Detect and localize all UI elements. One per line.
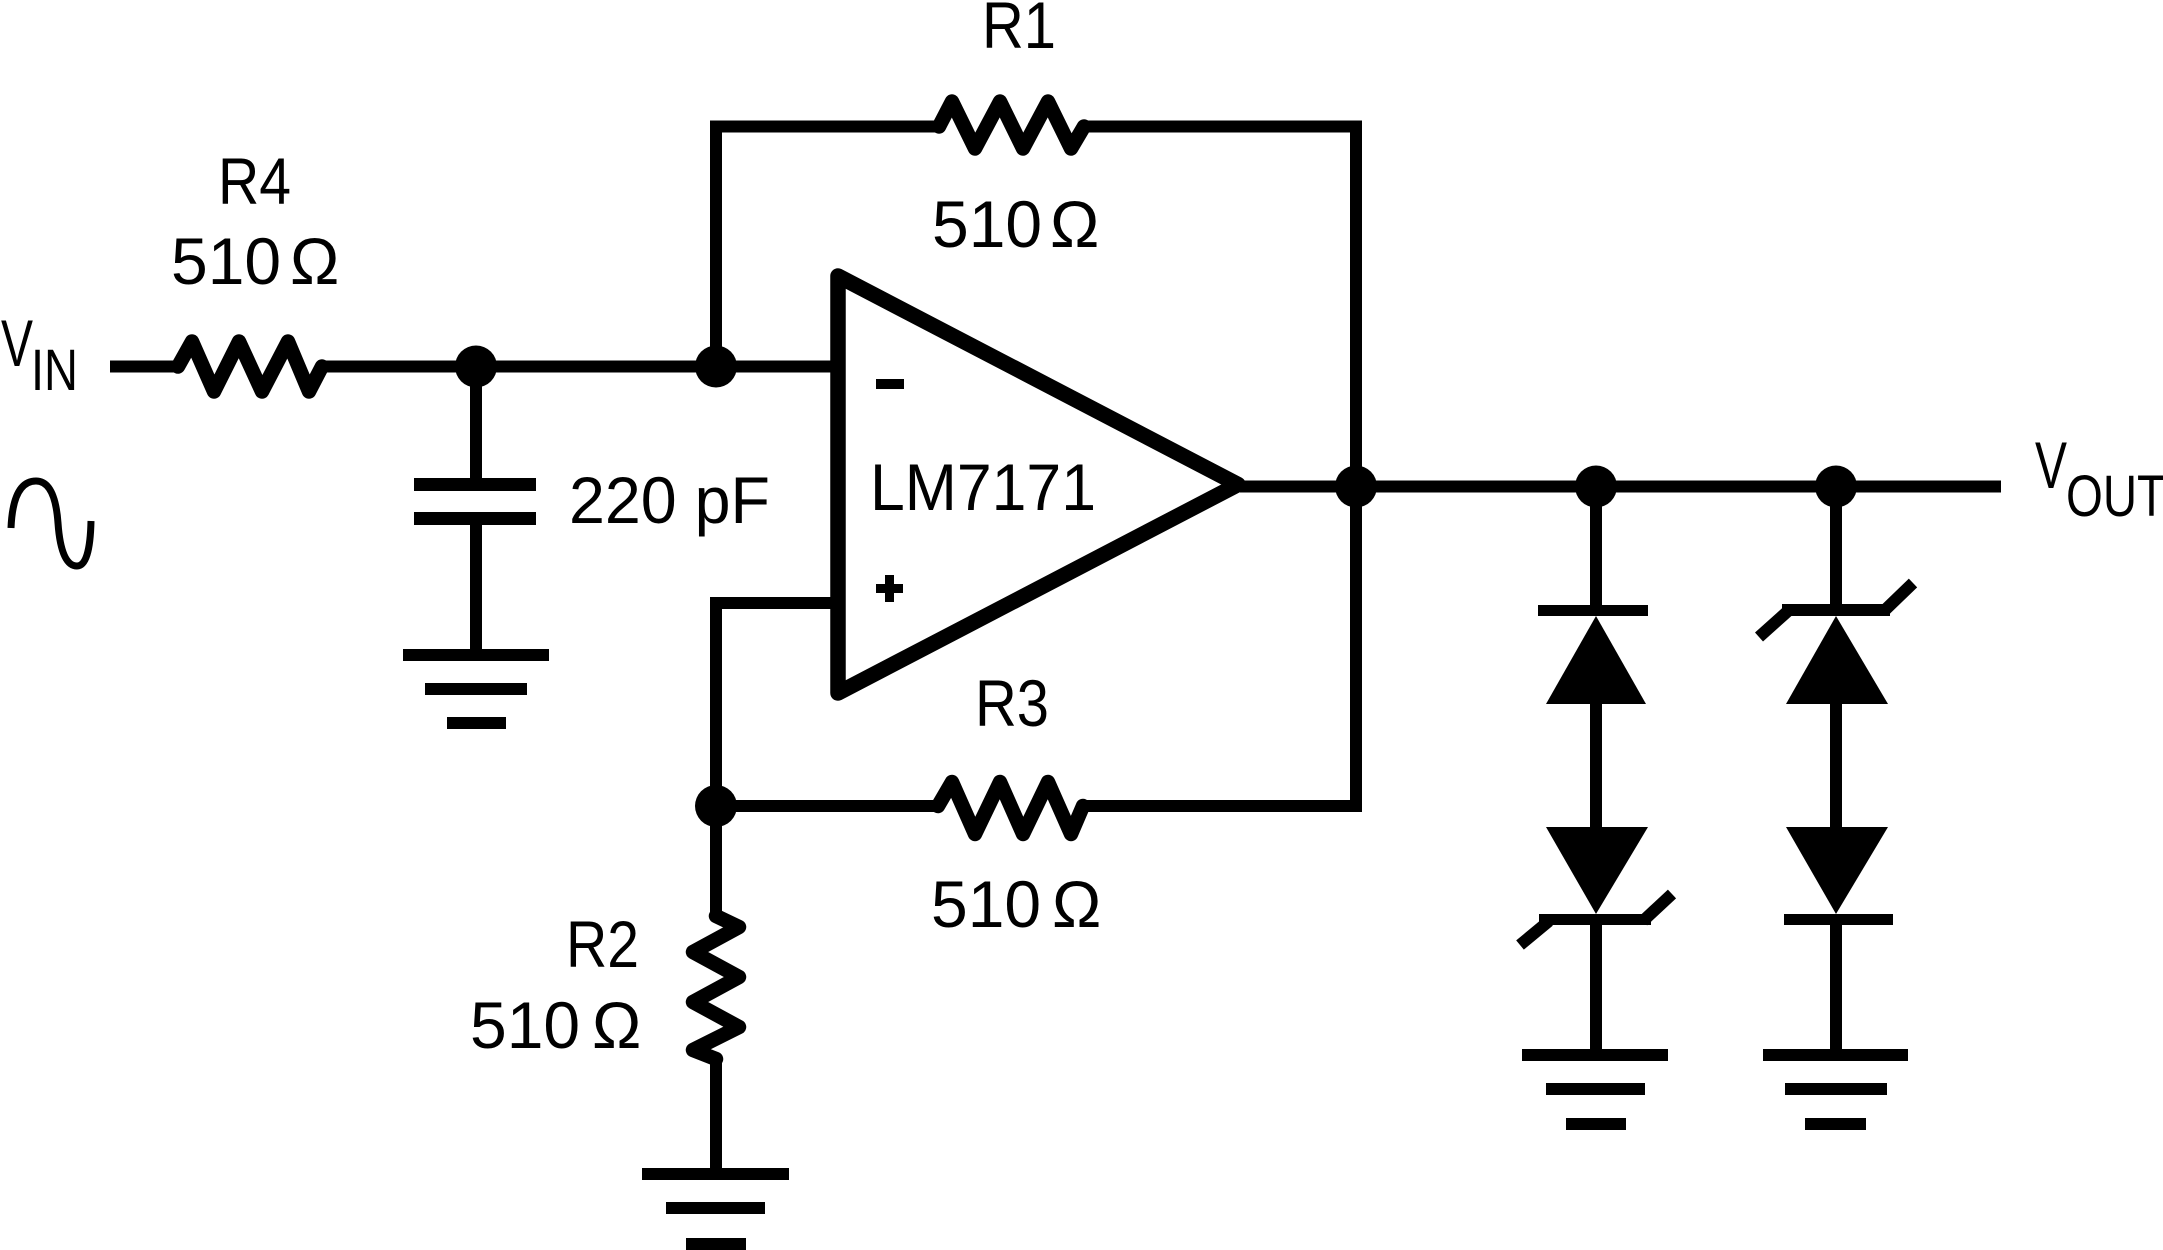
wire D2 to ground	[1590, 923, 1602, 1055]
node OUT junction feedback	[1335, 466, 1377, 508]
svg-text:R3: R3	[975, 666, 1049, 740]
diode D4 down triangle	[1786, 827, 1888, 914]
wire feedback left vertical	[716, 127, 942, 367]
zener D2 bar with ticks	[1520, 894, 1672, 945]
wire non-inverting stub	[716, 603, 838, 806]
wire node A down to capacitor	[470, 367, 482, 481]
svg-text:Ω: Ω	[592, 988, 641, 1062]
svg-text:220 pF: 220 pF	[569, 463, 770, 537]
label R2 value 510 ohm	[470, 988, 641, 1062]
wire VIN to R4	[110, 361, 182, 373]
op-amp U1 plus input sign	[876, 575, 903, 602]
resistor R4	[178, 342, 322, 392]
wire capacitor to ground	[470, 523, 482, 655]
diode D4 cathode bar	[1784, 914, 1893, 925]
node D2 branch junction	[1815, 466, 1857, 508]
wire between D1 and D2	[1590, 700, 1602, 830]
label R4 value 510 ohm	[171, 224, 339, 298]
node VOUT label	[2035, 428, 2163, 529]
resistor R1	[939, 102, 1084, 149]
resistor R3	[938, 782, 1083, 834]
op-amp U1 minus input sign	[876, 379, 904, 389]
resistor R2	[693, 916, 739, 1059]
svg-text:R4: R4	[218, 144, 291, 218]
node VIN label	[1, 306, 78, 403]
wire node C to R3	[716, 800, 940, 812]
wire branch1 down to diode D1	[1590, 487, 1602, 613]
node C junction R2 R3	[695, 785, 737, 827]
wire between D3 and D4	[1830, 700, 1842, 830]
capacitor C1 plates	[414, 478, 536, 525]
wire D4 to ground	[1830, 923, 1842, 1055]
node D1 branch junction	[1575, 466, 1617, 508]
svg-text:510: 510	[932, 187, 1042, 261]
svg-text:R1: R1	[982, 0, 1056, 62]
svg-text:510: 510	[470, 988, 580, 1062]
svg-text:R2: R2	[566, 907, 639, 981]
ground branch2	[1763, 1049, 1908, 1130]
svg-text:Ω: Ω	[1052, 867, 1101, 941]
svg-text:510: 510	[171, 224, 281, 298]
diode D1 cathode bar	[1538, 605, 1648, 616]
node A junction capacitor tap	[455, 346, 497, 388]
svg-text:510: 510	[931, 867, 1041, 941]
wire R2 to ground	[710, 1057, 722, 1174]
svg-text:V: V	[1, 306, 33, 380]
label R1 value 510 ohm	[932, 187, 1099, 261]
svg-text:LM7171: LM7171	[870, 450, 1096, 524]
ground branch1	[1522, 1049, 1668, 1130]
diode D2 down triangle	[1546, 827, 1648, 914]
op-amp U1 LM7171 triangle	[838, 276, 1238, 693]
diode D1 up triangle	[1546, 616, 1646, 704]
zener D3 bar with ticks	[1759, 583, 1913, 637]
wire feedback right vertical	[1080, 127, 1356, 807]
svg-text:OUT: OUT	[2066, 464, 2163, 529]
wire op-amp output	[1240, 481, 2001, 493]
wire branch2 down to zener D3	[1830, 487, 1842, 613]
label R3 value 510 ohm	[931, 867, 1101, 941]
svg-text:V: V	[2035, 428, 2067, 502]
svg-text:IN: IN	[31, 338, 78, 403]
ground R2	[642, 1168, 789, 1250]
svg-text:Ω: Ω	[290, 224, 339, 298]
svg-text:Ω: Ω	[1050, 187, 1099, 261]
AC source sine symbol	[11, 481, 91, 566]
diode D3 up triangle	[1786, 616, 1888, 704]
wire node C down to R2	[710, 806, 722, 918]
wire R4 to op-amp inverting input	[318, 361, 838, 373]
node B junction inverting input	[695, 346, 737, 388]
ground capacitor	[403, 649, 549, 729]
